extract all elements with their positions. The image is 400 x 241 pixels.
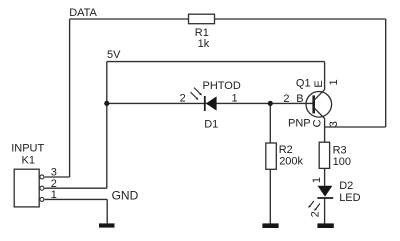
svg-text:3: 3: [51, 167, 57, 179]
svg-text:D2: D2: [339, 180, 353, 192]
svg-text:DATA: DATA: [69, 7, 97, 19]
wire collector horizontal: [325, 126, 386, 128]
wire DATA vertical down to K1 pin 3: [69, 19, 71, 177]
resistor R3: [319, 142, 329, 168]
svg-text:1: 1: [311, 177, 323, 183]
svg-text:C: C: [311, 119, 323, 127]
ground bar under LED: [317, 223, 333, 228]
wire R3 to LED: [324, 168, 326, 185]
resistor R2: [266, 143, 277, 169]
LED light arrow 1: [308, 201, 314, 208]
wire DATA horizontal to R1: [70, 18, 189, 20]
wire ground stub under K1: [106, 199, 108, 223]
svg-text:R2: R2: [279, 144, 293, 156]
wire LED to ground: [324, 198, 326, 224]
svg-text:100: 100: [333, 156, 351, 168]
wire K1 pin 2: [45, 187, 107, 189]
connector K1 pin circle 3: [40, 175, 44, 179]
junction dot at base/R2: [268, 101, 273, 106]
LED D2 triangle: [318, 186, 333, 197]
svg-text:200k: 200k: [279, 155, 303, 167]
ground bar under K1: [99, 223, 115, 227]
transistor Q1 collector line: [314, 108, 325, 119]
svg-text:INPUT: INPUT: [11, 143, 44, 155]
wire collector vertical to R3: [324, 119, 326, 143]
ground bar under R2: [262, 223, 278, 228]
wire right vertical: [385, 19, 387, 127]
wire R2 top: [269, 103, 271, 143]
svg-text:LED: LED: [339, 192, 360, 204]
svg-text:3: 3: [328, 121, 340, 127]
connector K1 pin circle 2: [40, 186, 44, 190]
wire 5V horizontal rail: [107, 61, 325, 63]
svg-text:2: 2: [310, 211, 322, 217]
transistor Q1 body: [306, 92, 332, 118]
resistor R1: [189, 14, 215, 24]
junction dot at 5V/photodiode: [104, 101, 109, 106]
svg-text:R1: R1: [195, 27, 209, 39]
svg-text:R3: R3: [333, 145, 347, 157]
LED D2 cathode bar: [317, 197, 333, 199]
svg-text:D1: D1: [204, 118, 218, 130]
svg-text:B: B: [296, 93, 303, 105]
svg-text:Q1: Q1: [296, 77, 311, 89]
svg-text:E: E: [313, 80, 325, 87]
wire K1 pin 3: [45, 176, 70, 178]
wire 5V vertical down to K1 pin 2: [106, 62, 108, 189]
svg-text:1: 1: [232, 93, 238, 105]
svg-text:2: 2: [180, 93, 186, 105]
wire R1 to top-right corner: [215, 18, 386, 20]
svg-text:PHTOD: PHTOD: [203, 80, 241, 92]
transistor Q1 base bar: [312, 95, 315, 113]
photodiode light arrow 2: [191, 92, 199, 100]
svg-text:1: 1: [328, 79, 340, 85]
svg-text:K1: K1: [22, 155, 35, 167]
svg-text:PNP: PNP: [288, 118, 311, 130]
wire photodiode / base horizontal: [107, 102, 314, 104]
svg-text:5V: 5V: [107, 49, 121, 61]
photodiode D1 triangle: [206, 96, 217, 110]
connector K1 body: [14, 169, 39, 207]
photodiode light arrow 1: [194, 88, 202, 96]
transistor Q1 emitter line: [314, 90, 325, 101]
connector K1 pin circle 1: [40, 197, 44, 201]
photodiode D1 cathode bar: [204, 96, 206, 111]
LED light arrow 2: [314, 204, 320, 211]
svg-text:1: 1: [51, 189, 57, 201]
svg-text:GND: GND: [112, 188, 139, 202]
svg-text:1k: 1k: [198, 38, 210, 50]
wire R2 bottom to ground: [269, 169, 271, 223]
svg-text:2: 2: [283, 93, 289, 105]
wire K1 pin 1: [45, 198, 108, 200]
svg-text:2: 2: [51, 178, 57, 190]
wire emitter vertical: [324, 62, 326, 90]
